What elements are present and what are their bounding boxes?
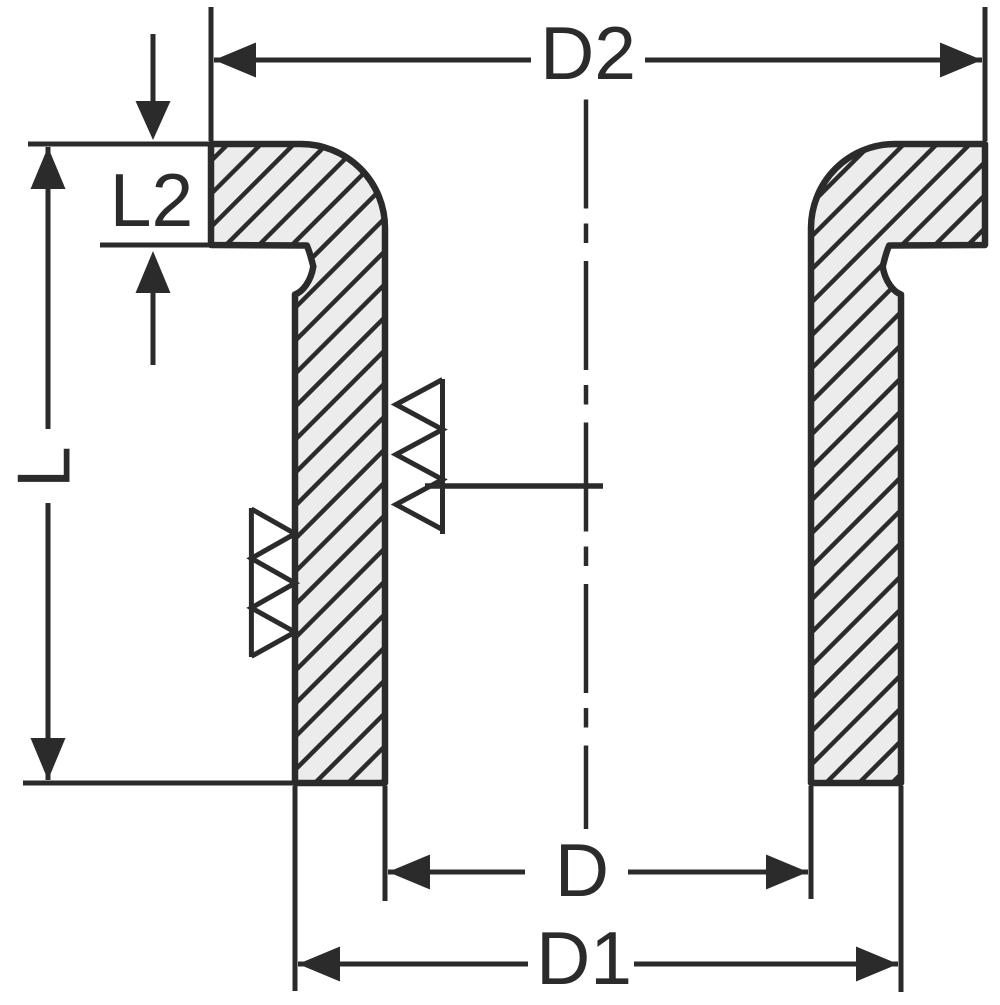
D2 arrowhead left bbox=[214, 43, 256, 78]
svg-text:D1: D1 bbox=[536, 916, 632, 1000]
grommet cross-section left half body fill bbox=[211, 144, 385, 783]
L extension line top bbox=[28, 142, 213, 147]
surface symbol triangles (left of left wall) bbox=[251, 508, 295, 657]
svg-text:L: L bbox=[2, 446, 86, 488]
grommet cross-section left half outline bbox=[211, 144, 385, 783]
grommet cross-section right half body fill bbox=[811, 144, 985, 783]
L2 arrowhead top bbox=[136, 101, 171, 140]
centerline (dash-dot axis) bbox=[584, 100, 589, 830]
D arrowhead right bbox=[766, 855, 808, 890]
D2 extension line right bbox=[983, 7, 988, 141]
L2 arrow bottom shaft bbox=[151, 291, 156, 365]
D extension line right bbox=[809, 786, 814, 899]
D2 dimension line bbox=[214, 58, 982, 63]
D arrowhead left bbox=[388, 855, 430, 890]
D1 arrowhead right bbox=[856, 947, 898, 982]
L arrowhead bottom bbox=[31, 738, 66, 780]
hatching left half bbox=[0, 138, 1000, 788]
grommet cross-section right half outline bbox=[811, 144, 985, 783]
leader line from surface symbol to centerline bbox=[425, 483, 603, 489]
D2 extension line left bbox=[209, 7, 214, 141]
hatching right half bbox=[128, 138, 1000, 788]
svg-text:D: D bbox=[555, 828, 609, 912]
L2 arrow top shaft bbox=[151, 34, 156, 103]
surface symbol triangles (right of left wall) bbox=[396, 379, 443, 534]
D1 extension line left bbox=[293, 786, 298, 991]
L dimension line bbox=[46, 147, 51, 780]
L2 extension line bbox=[100, 243, 213, 248]
D2 arrowhead right bbox=[940, 43, 982, 78]
D1 dimension line bbox=[298, 962, 898, 967]
D extension line left bbox=[383, 786, 388, 901]
svg-text:L2: L2 bbox=[110, 158, 193, 242]
D1 arrowhead left bbox=[298, 947, 340, 982]
L extension line bottom bbox=[23, 781, 297, 786]
D dimension line bbox=[388, 870, 808, 875]
svg-text:D2: D2 bbox=[540, 11, 636, 95]
D1 extension line right bbox=[899, 786, 904, 992]
L arrowhead top bbox=[31, 147, 66, 189]
L2 arrowhead bottom bbox=[136, 251, 171, 293]
